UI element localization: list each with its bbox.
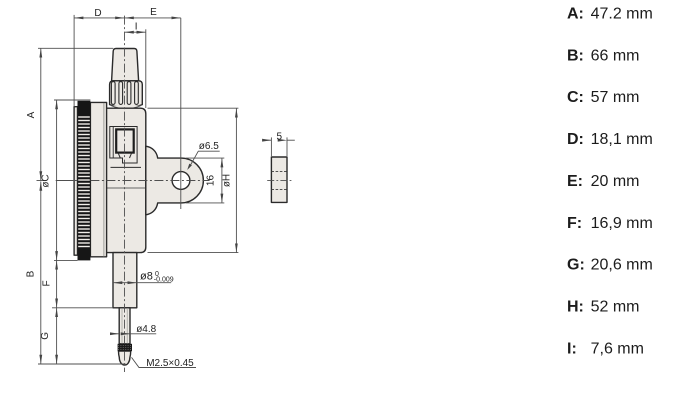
- crown flute slot 4: [135, 82, 139, 105]
- bezel knurl band: [78, 101, 91, 261]
- bezel rim (smooth): [90, 102, 106, 256]
- svg-text:G:: G:: [567, 257, 585, 274]
- spindle inner line left: [121, 308, 123, 344]
- vertical main centerline: [124, 16, 126, 372]
- dim C top extension: [54, 99, 90, 101]
- dim 5 left extension: [270, 137, 272, 156]
- clamp lower line: [111, 166, 142, 168]
- svg-text:ø8: ø8: [140, 271, 153, 283]
- dim D left extension: [73, 15, 75, 107]
- bezel rim inner line: [103, 103, 105, 257]
- spindle inner line right: [126, 308, 128, 344]
- svg-text:ø6.5: ø6.5: [199, 141, 219, 152]
- clamp inner block (thick): [116, 129, 134, 152]
- crown knob (fluted): [110, 81, 143, 108]
- svg-text:16,9 mm: 16,9 mm: [591, 215, 653, 232]
- clamp bracket inner left line: [112, 127, 114, 159]
- dim H top extension: [148, 107, 239, 109]
- crown skirt arc: [112, 106, 141, 109]
- lug side view plate: [271, 157, 287, 202]
- tab centerline: [267, 180, 292, 182]
- lug hole (6.5): [172, 172, 190, 190]
- dim E line: [125, 17, 181, 19]
- svg-text:F: F: [41, 280, 52, 286]
- thimble knurl band: [118, 344, 132, 351]
- housing cylinder: [104, 108, 146, 252]
- housing seam line: [104, 187, 146, 189]
- clamp taper left: [118, 153, 120, 158]
- bezel knurl stripes: [78, 117, 90, 247]
- svg-text:E:: E:: [567, 173, 583, 190]
- dim D line: [74, 17, 124, 19]
- dim 16 bottom extension: [186, 202, 224, 204]
- hidden hole line bottom: [271, 189, 287, 191]
- svg-text:øC: øC: [41, 174, 52, 187]
- svg-text:18,1 mm: 18,1 mm: [591, 131, 653, 148]
- svg-text:øH: øH: [222, 174, 233, 187]
- dim o4.8 right arrow: [122, 333, 130, 335]
- svg-text:B:: B:: [567, 47, 584, 64]
- crown flute slot 3: [127, 82, 131, 105]
- svg-text:A: A: [26, 111, 37, 118]
- svg-text:52 mm: 52 mm: [591, 299, 640, 316]
- leader o6.5 arrowhead: [187, 164, 192, 170]
- dim C line: [56, 100, 58, 260]
- bezel front lip: [74, 107, 77, 256]
- dim 5 left arrow: [264, 139, 272, 141]
- svg-text:16: 16: [205, 175, 216, 187]
- svg-text:7,6 mm: 7,6 mm: [591, 340, 644, 357]
- spindle rod: [119, 308, 130, 344]
- dim o4.8 tail: [130, 333, 156, 335]
- dim A line: [40, 48, 42, 180]
- clamp bracket outline: [110, 127, 137, 164]
- svg-text:5: 5: [277, 131, 283, 142]
- svg-text:20 mm: 20 mm: [591, 173, 640, 190]
- horizontal centerline extension (solid through lip): [56, 180, 90, 182]
- dim G line: [56, 308, 58, 364]
- mounting lug (ear): [146, 146, 204, 215]
- svg-text:ø4.8: ø4.8: [136, 324, 156, 335]
- svg-text:57 mm: 57 mm: [591, 89, 640, 106]
- svg-text:20,6 mm: 20,6 mm: [591, 257, 653, 274]
- svg-text:E: E: [150, 7, 157, 18]
- dim o8 line: [113, 282, 137, 284]
- svg-text:I:: I:: [567, 340, 577, 357]
- svg-text:G: G: [40, 332, 51, 340]
- dim I line: [125, 31, 146, 33]
- dim 5 right arrow: [287, 139, 295, 141]
- svg-text:D:: D:: [567, 131, 584, 148]
- dim 16 line: [221, 158, 223, 203]
- crown flute slot 2: [119, 82, 123, 105]
- horizontal main centerline: [90, 180, 209, 182]
- dim o8 line tail: [137, 282, 171, 284]
- dim A top extension: [38, 47, 113, 49]
- contact point body: [119, 351, 131, 365]
- svg-text:-0.009: -0.009: [154, 276, 174, 283]
- svg-text:I: I: [135, 22, 138, 33]
- svg-text:A:: A:: [567, 6, 584, 23]
- dim F bottom extension: [52, 307, 113, 309]
- cap stem (smooth top knob): [112, 49, 139, 81]
- svg-text:M2.5×0.45: M2.5×0.45: [146, 358, 194, 369]
- horizontal main centerline left tick: [37, 180, 45, 182]
- dim B line: [40, 182, 42, 365]
- svg-text:47.2 mm: 47.2 mm: [591, 6, 653, 23]
- lug hole vertical centerline + E extension: [180, 18, 182, 209]
- leader M2.5: [132, 357, 197, 367]
- dim B/G bottom extension: [38, 363, 126, 365]
- svg-text:66 mm: 66 mm: [591, 47, 640, 64]
- clamp taper right: [130, 153, 132, 158]
- dim C bottom extension: [54, 259, 78, 261]
- dim 5 right extension: [286, 137, 288, 156]
- dim 16 top extension: [186, 157, 224, 159]
- thimble knurl texture: [118, 346, 132, 350]
- svg-text:H:: H:: [567, 299, 584, 316]
- svg-text:F:: F:: [567, 215, 582, 232]
- leader o6.5: [189, 151, 219, 167]
- crown flute slot 1: [111, 82, 115, 105]
- dim I right extension: [145, 29, 147, 108]
- svg-text:C:: C:: [567, 89, 584, 106]
- dim H bottom extension: [148, 252, 239, 254]
- svg-text:B: B: [26, 270, 37, 277]
- svg-text:D: D: [94, 8, 101, 19]
- dim H line: [235, 108, 237, 252]
- dim F line: [56, 260, 58, 307]
- stem (8mm): [113, 253, 137, 308]
- hidden hole line top: [271, 170, 287, 172]
- dim o4.8 left arrow: [111, 333, 119, 335]
